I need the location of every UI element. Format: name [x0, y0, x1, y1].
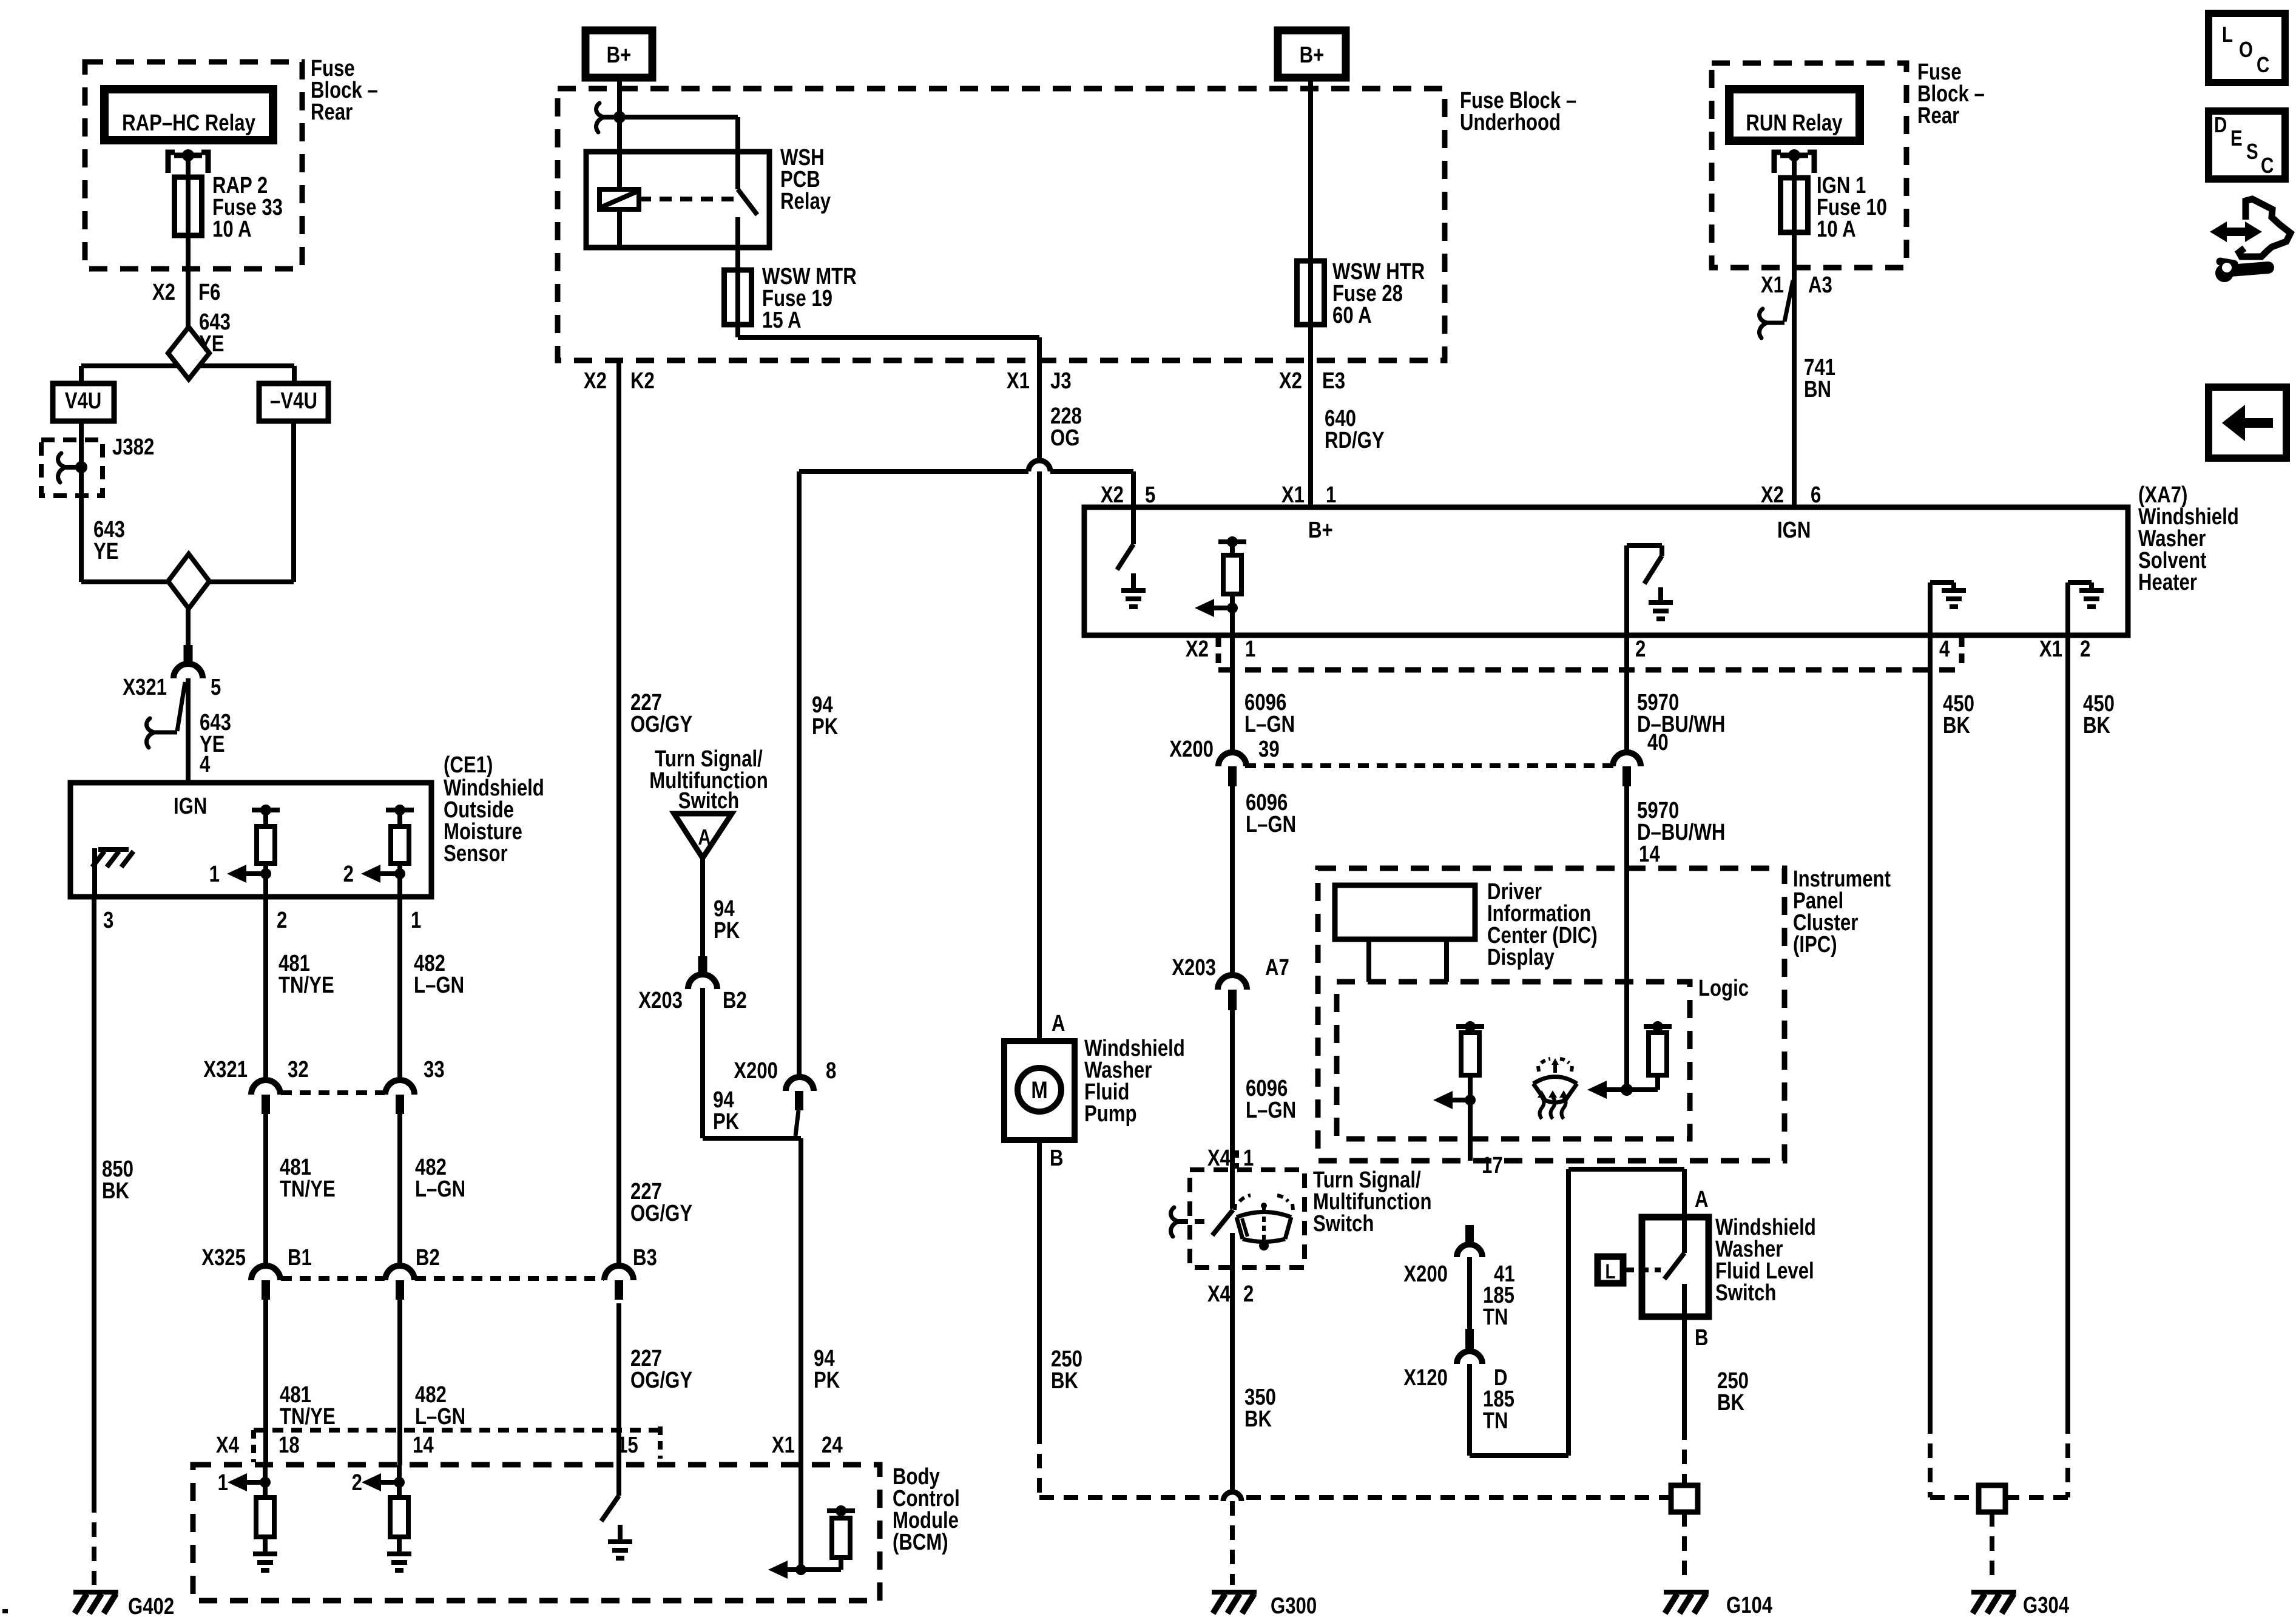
svg-text:S: S	[2246, 139, 2258, 163]
svg-text:8: 8	[826, 1058, 836, 1084]
svg-text:C: C	[2257, 52, 2269, 76]
svg-text:2: 2	[352, 1470, 362, 1496]
svg-text:X1: X1	[772, 1433, 795, 1458]
svg-text:TN/YE: TN/YE	[280, 1404, 336, 1430]
svg-text:A3: A3	[1808, 272, 1832, 298]
svg-text:Switch: Switch	[1715, 1280, 1776, 1306]
svg-text:BK: BK	[1943, 713, 1970, 738]
svg-text:10 A: 10 A	[1817, 217, 1856, 242]
svg-text:X2: X2	[1279, 368, 1302, 394]
svg-text:OG/GY: OG/GY	[630, 712, 692, 737]
svg-text:J3: J3	[1050, 368, 1072, 394]
svg-text:39: 39	[1258, 737, 1280, 762]
svg-text:PK: PK	[814, 1368, 840, 1393]
svg-text:X2: X2	[1761, 482, 1784, 508]
svg-text:17: 17	[1482, 1153, 1503, 1178]
svg-text:G104: G104	[1726, 1593, 1773, 1617]
svg-text:F6: F6	[198, 280, 220, 305]
svg-text:Pump: Pump	[1084, 1101, 1137, 1127]
svg-text:2: 2	[1635, 636, 1646, 662]
svg-text:O: O	[2239, 37, 2253, 61]
svg-text:B: B	[1695, 1325, 1709, 1351]
svg-text:IGN: IGN	[174, 794, 207, 819]
svg-text:D: D	[2214, 112, 2227, 137]
svg-text:18: 18	[279, 1433, 300, 1458]
svg-text:X2: X2	[152, 280, 175, 305]
svg-text:OG: OG	[1050, 425, 1079, 451]
svg-text:B+: B+	[1308, 518, 1333, 543]
svg-text:YE: YE	[93, 539, 119, 564]
svg-text:Display: Display	[1487, 945, 1555, 970]
svg-text:X4: X4	[1207, 1146, 1231, 1171]
svg-text:Sensor: Sensor	[444, 841, 508, 866]
svg-text:PK: PK	[714, 918, 740, 944]
svg-text:L–GN: L–GN	[1246, 1098, 1296, 1123]
svg-text:5: 5	[211, 675, 221, 700]
svg-text:E: E	[2230, 126, 2243, 150]
svg-text:(IPC): (IPC)	[1793, 932, 1837, 957]
svg-text:40: 40	[1647, 730, 1669, 755]
svg-text:1: 1	[218, 1470, 228, 1496]
svg-text:4: 4	[200, 752, 211, 777]
svg-text:X325: X325	[201, 1245, 246, 1271]
svg-text:14: 14	[1639, 842, 1660, 867]
svg-text:X200: X200	[734, 1058, 778, 1084]
svg-text:L: L	[2222, 22, 2233, 46]
svg-text:A: A	[1695, 1187, 1709, 1212]
svg-text:TN: TN	[1483, 1408, 1508, 1434]
svg-text:Switch: Switch	[678, 788, 739, 814]
svg-text:2: 2	[343, 862, 354, 887]
svg-text:BK: BK	[2083, 713, 2110, 738]
svg-text:B1: B1	[288, 1245, 312, 1271]
svg-text:1: 1	[1245, 636, 1255, 662]
svg-text:X200: X200	[1403, 1261, 1448, 1287]
svg-text:X203: X203	[638, 988, 683, 1013]
svg-text:BK: BK	[102, 1178, 129, 1204]
svg-text:X2: X2	[1186, 636, 1209, 662]
svg-text:5: 5	[1145, 482, 1155, 508]
svg-text:BN: BN	[1804, 377, 1831, 402]
svg-text:X1: X1	[1281, 482, 1305, 508]
svg-text:L: L	[1605, 1260, 1615, 1283]
svg-text:X200: X200	[1169, 737, 1214, 762]
svg-text:PK: PK	[812, 714, 838, 740]
svg-text:OG/GY: OG/GY	[630, 1201, 692, 1226]
svg-text:OG/GY: OG/GY	[630, 1368, 692, 1393]
svg-text:RUN Relay: RUN Relay	[1746, 110, 1843, 136]
svg-text:(CE1): (CE1)	[444, 752, 493, 778]
svg-text:IGN: IGN	[1777, 518, 1811, 543]
svg-text:BK: BK	[1244, 1406, 1272, 1432]
svg-text:B: B	[1050, 1146, 1064, 1171]
svg-text:L–GN: L–GN	[1244, 712, 1295, 737]
svg-text:M: M	[1031, 1076, 1047, 1104]
svg-text:B2: B2	[416, 1245, 440, 1271]
svg-text:BK: BK	[1717, 1390, 1744, 1416]
svg-text:X2: X2	[1101, 482, 1124, 508]
svg-text:Rear: Rear	[1917, 103, 1959, 129]
svg-text:60 A: 60 A	[1332, 303, 1372, 328]
svg-text:15 A: 15 A	[762, 308, 802, 333]
svg-text:L–GN: L–GN	[1246, 812, 1296, 837]
svg-text:E3: E3	[1322, 368, 1345, 394]
svg-text:B3: B3	[633, 1245, 657, 1271]
svg-text:YE: YE	[199, 331, 225, 357]
svg-text:C: C	[2261, 153, 2274, 177]
svg-text:A: A	[698, 825, 711, 849]
svg-text:4: 4	[1939, 636, 1950, 662]
svg-text:3: 3	[103, 908, 113, 933]
svg-text:TN/YE: TN/YE	[280, 1176, 336, 1202]
svg-text:Heater: Heater	[2138, 570, 2197, 595]
svg-text:1: 1	[209, 862, 220, 887]
svg-text:PK: PK	[713, 1109, 739, 1135]
svg-text:A7: A7	[1265, 955, 1289, 981]
svg-text:(BCM): (BCM)	[893, 1530, 948, 1555]
svg-text:BK: BK	[1051, 1368, 1078, 1394]
svg-text:Underhood: Underhood	[1460, 110, 1561, 135]
svg-text:1: 1	[411, 908, 421, 933]
svg-text:32: 32	[288, 1057, 309, 1082]
svg-text:X120: X120	[1403, 1365, 1448, 1391]
svg-text:1: 1	[1326, 482, 1336, 508]
svg-text:X1: X1	[2039, 636, 2062, 662]
svg-text:K2: K2	[630, 368, 655, 394]
svg-text:G304: G304	[2023, 1593, 2070, 1617]
svg-text:Logic: Logic	[1698, 976, 1749, 1001]
svg-text:10 A: 10 A	[212, 217, 252, 242]
svg-text:RAP–HC Relay: RAP–HC Relay	[122, 110, 255, 136]
svg-text:B+: B+	[1300, 42, 1325, 68]
svg-text:2: 2	[1243, 1281, 1254, 1307]
svg-text:6: 6	[1811, 482, 1821, 508]
svg-text:B+: B+	[607, 42, 632, 68]
svg-text:X321: X321	[203, 1057, 248, 1082]
svg-text:X1: X1	[1761, 272, 1784, 298]
svg-text:G300: G300	[1271, 1593, 1317, 1617]
svg-text:–V4U: –V4U	[270, 388, 317, 414]
svg-text:X2: X2	[584, 368, 607, 394]
svg-text:X1: X1	[1007, 368, 1030, 394]
svg-text:RD/GY: RD/GY	[1325, 428, 1385, 453]
svg-text:14: 14	[413, 1433, 434, 1458]
svg-text:L–GN: L–GN	[415, 1404, 465, 1430]
svg-text:L–GN: L–GN	[414, 973, 464, 998]
svg-text:2: 2	[277, 908, 287, 933]
svg-text:L–GN: L–GN	[415, 1176, 465, 1202]
svg-text:TN/YE: TN/YE	[279, 973, 334, 998]
svg-text:41: 41	[1494, 1261, 1515, 1287]
svg-text:B2: B2	[723, 988, 747, 1013]
svg-text:X321: X321	[123, 675, 167, 700]
svg-text:G402: G402	[128, 1594, 174, 1617]
svg-text:Switch: Switch	[1313, 1211, 1374, 1237]
svg-text:Rear: Rear	[311, 100, 353, 125]
svg-text:Relay: Relay	[780, 189, 831, 214]
svg-text:X4: X4	[1207, 1281, 1231, 1307]
svg-text:J382: J382	[112, 434, 154, 460]
svg-text:X4: X4	[216, 1433, 240, 1458]
svg-text:33: 33	[424, 1057, 445, 1082]
svg-text:24: 24	[822, 1433, 843, 1458]
svg-text:2: 2	[2080, 636, 2090, 662]
svg-text:TN: TN	[1483, 1305, 1508, 1330]
svg-text:A: A	[1052, 1011, 1065, 1036]
svg-text:1: 1	[1243, 1146, 1254, 1171]
svg-text:V4U: V4U	[65, 388, 102, 414]
svg-text:X203: X203	[1172, 955, 1216, 981]
svg-text:15: 15	[617, 1433, 638, 1458]
